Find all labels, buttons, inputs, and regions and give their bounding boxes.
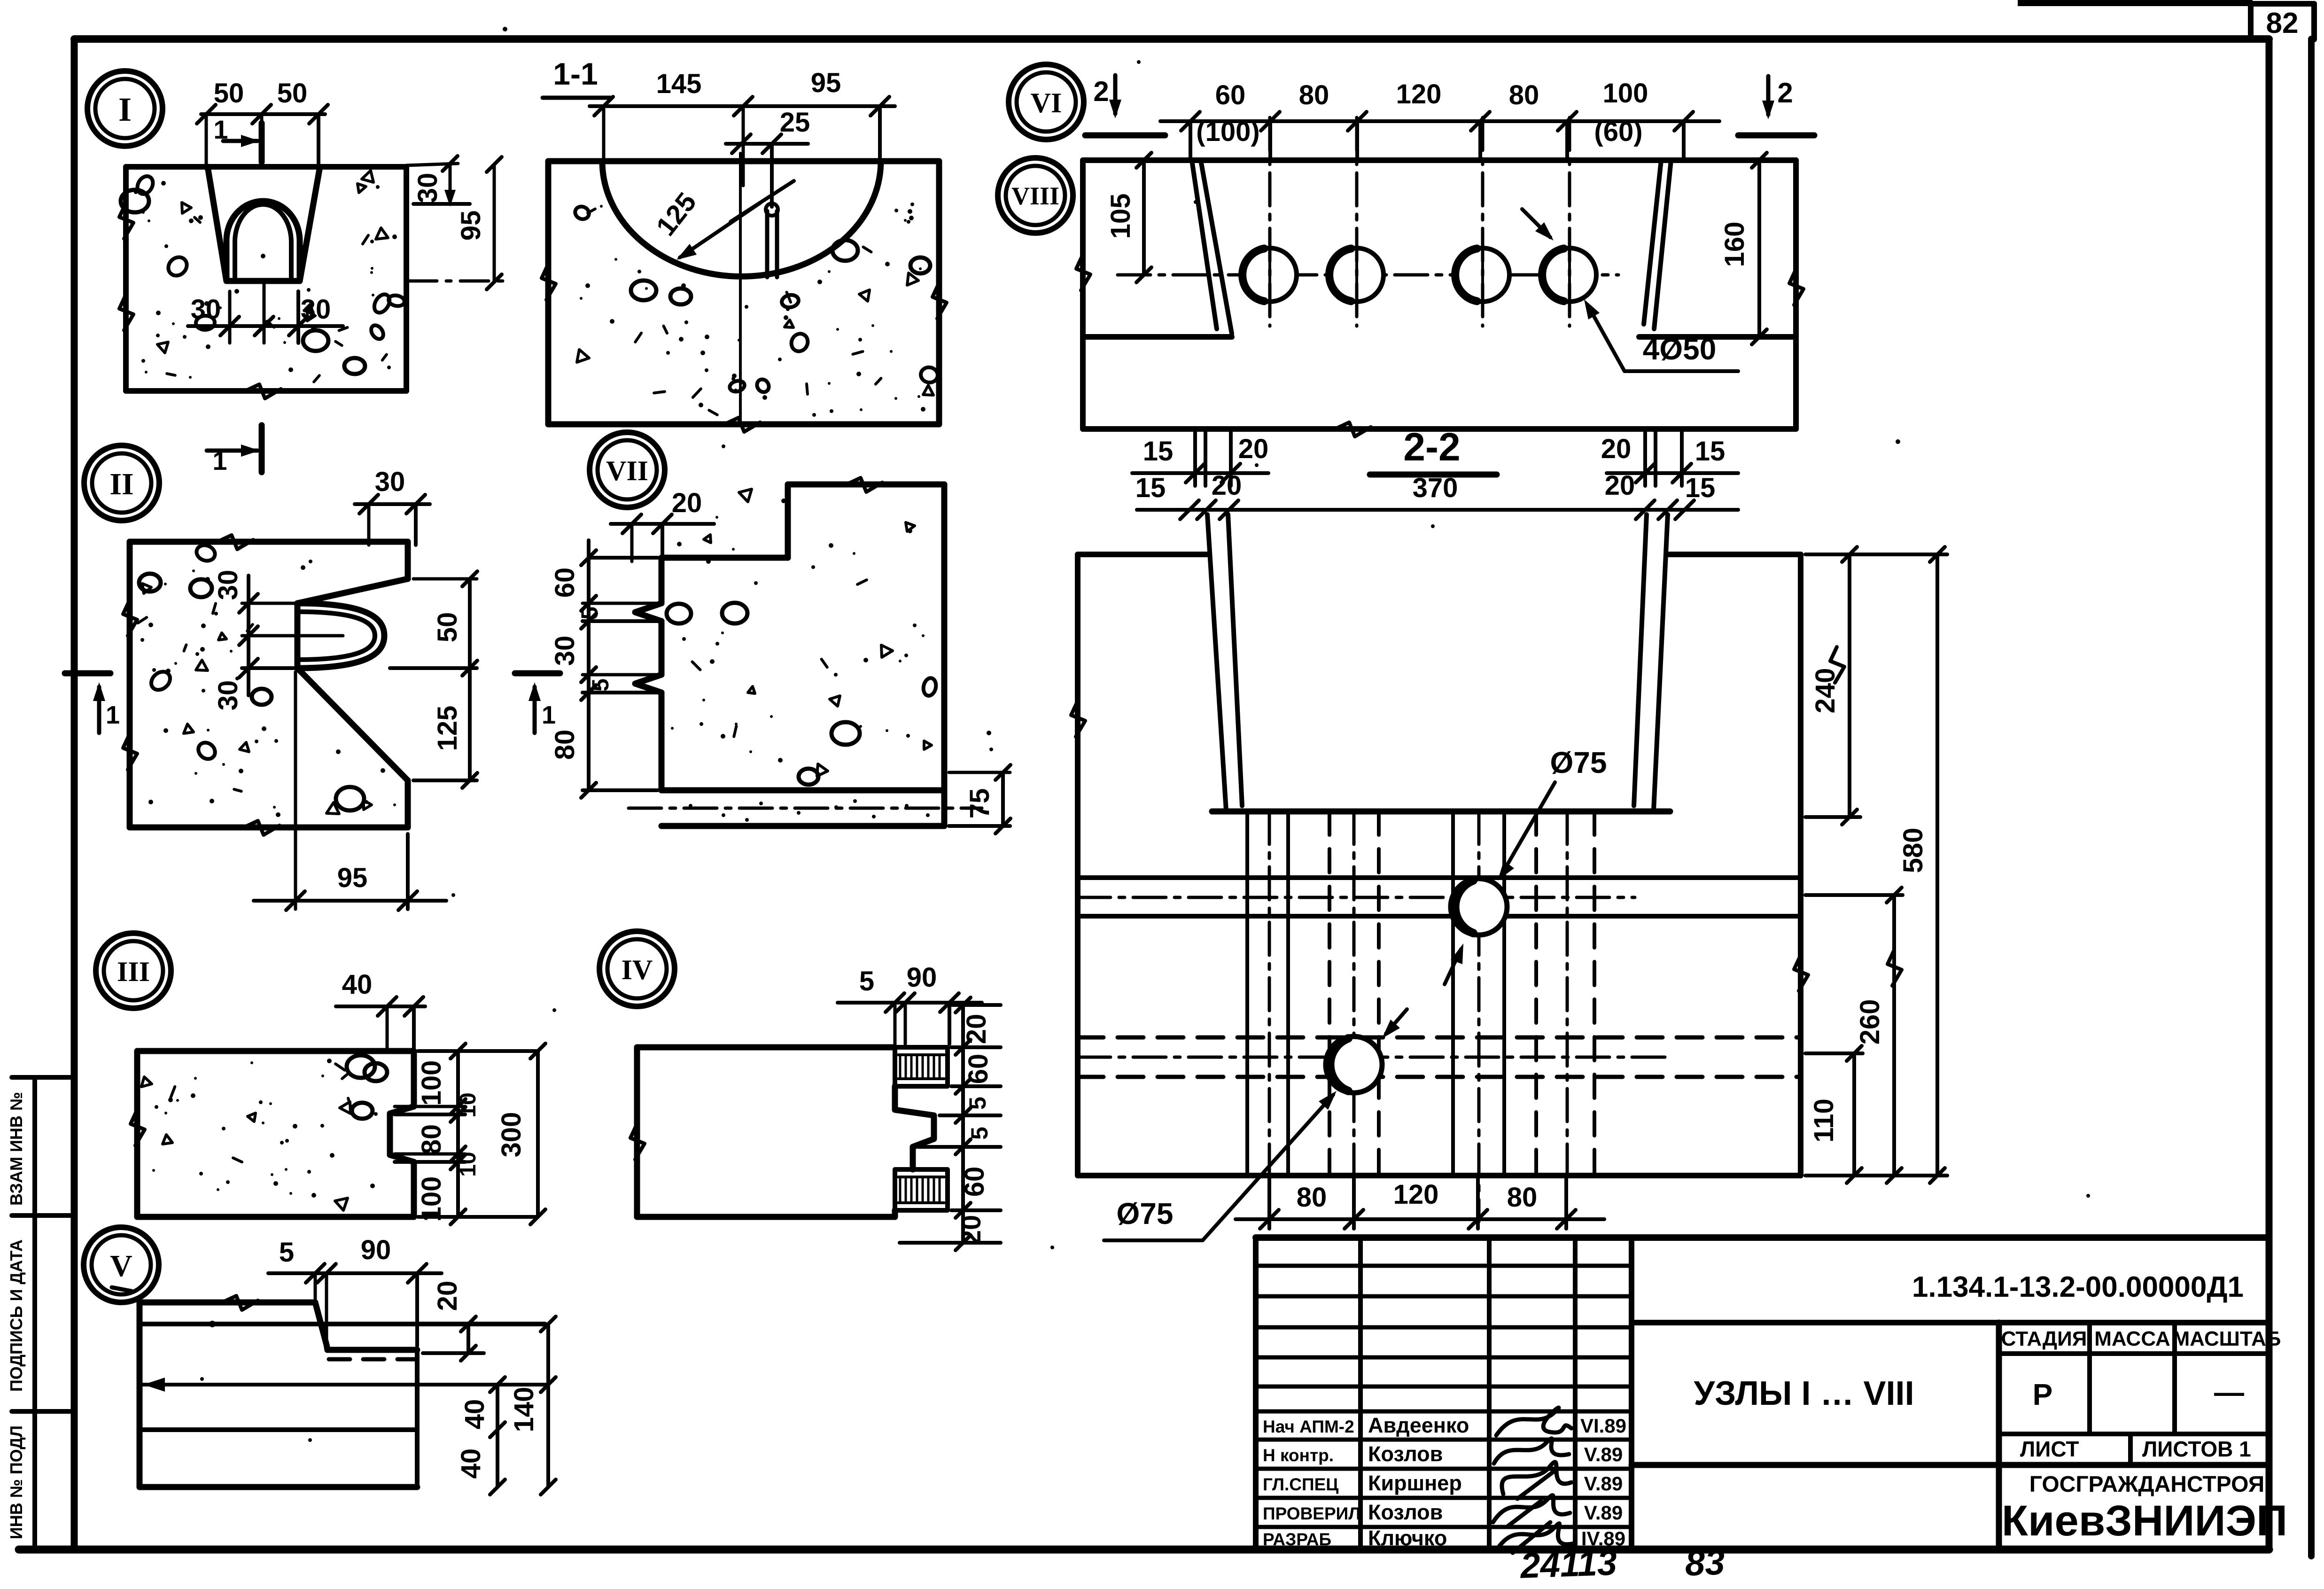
detail IV panel outline — [637, 1044, 895, 1051]
detail VII marker — [590, 432, 665, 507]
svg-text:20: 20 — [672, 488, 702, 518]
svg-text:5: 5 — [576, 607, 603, 620]
svg-text:V.89: V.89 — [1584, 1472, 1623, 1495]
section 1-1 radius 125 leader — [680, 181, 794, 257]
detail I section mark 1 bottom — [207, 449, 257, 453]
svg-text:145: 145 — [656, 69, 702, 99]
svg-text:ПОДПИСЬ И ДАТА: ПОДПИСЬ И ДАТА — [7, 1239, 26, 1392]
svg-text:75: 75 — [964, 788, 995, 819]
svg-text:Ключко: Ключко — [1368, 1526, 1447, 1550]
detail IV right edge profile — [895, 1086, 934, 1169]
svg-text:20: 20 — [1238, 434, 1269, 464]
section 1-1 anchor pin — [765, 211, 769, 277]
svg-text:30: 30 — [550, 636, 580, 666]
section 1-1 semicircular recess — [602, 161, 881, 276]
left stamp column — [32, 1077, 37, 1550]
svg-text:10: 10 — [456, 1152, 481, 1176]
detail VII L-block outline — [788, 482, 944, 488]
svg-text:—: — — [2214, 1375, 2244, 1409]
svg-text:1: 1 — [542, 701, 556, 729]
svg-text:15: 15 — [1695, 436, 1726, 467]
svg-text:ВЗАМ ИНВ №: ВЗАМ ИНВ № — [7, 1092, 26, 1206]
plan 2-2 upper left joint — [1192, 160, 1217, 329]
svg-text:370: 370 — [1413, 473, 1458, 503]
svg-text:IV: IV — [622, 954, 653, 985]
svg-text:V.89: V.89 — [1584, 1502, 1623, 1524]
detail II block outline — [130, 539, 408, 545]
svg-text:VII: VII — [606, 455, 648, 486]
svg-text:20: 20 — [432, 1281, 463, 1311]
detail VII lower band — [661, 823, 944, 829]
svg-text:30: 30 — [191, 294, 221, 325]
dim 260 — [1892, 895, 1896, 1176]
title block outer — [1256, 1234, 2269, 1241]
svg-text:120: 120 — [1396, 79, 1442, 109]
svg-text:20: 20 — [956, 1215, 987, 1246]
detail I dim 95 right — [493, 164, 496, 282]
svg-text:КиевЗНИИЭП: КиевЗНИИЭП — [2002, 1497, 2287, 1545]
svg-text:30: 30 — [213, 570, 243, 600]
detail III texture — [311, 1193, 316, 1198]
plan 2-2 upper outline — [1083, 157, 1796, 163]
svg-text:ЛИСТОВ 1: ЛИСТОВ 1 — [2142, 1437, 2251, 1461]
detail III dim 40 — [336, 1005, 425, 1008]
svg-text:4Ø50: 4Ø50 — [1643, 332, 1717, 366]
detail V dim 5+90 — [268, 1271, 442, 1275]
signatures squiggles — [1496, 1408, 1571, 1435]
detail I concrete block outline — [126, 164, 406, 170]
svg-text:20: 20 — [1212, 470, 1242, 501]
detail VII dim 75 — [1001, 772, 1005, 826]
detail I dim 50+50 — [201, 112, 325, 116]
plan 2-2 upper right joint — [1644, 160, 1661, 324]
detail I marker — [87, 71, 163, 146]
section 2-2 opening bottom — [1212, 809, 1670, 815]
detail III block outline — [137, 1048, 414, 1054]
detail II left dim chain 30/30 — [247, 576, 250, 695]
section 1-1 block outline — [548, 158, 939, 164]
svg-text:125: 125 — [432, 706, 463, 751]
page number box 82 — [2018, 0, 2253, 6]
svg-text:Киршнер: Киршнер — [1368, 1471, 1462, 1495]
svg-text:1.134.1-13.2-00.00000Д1: 1.134.1-13.2-00.00000Д1 — [1912, 1271, 2244, 1303]
svg-text:15: 15 — [1685, 473, 1716, 503]
svg-text:VIII: VIII — [1011, 182, 1059, 210]
svg-text:83: 83 — [1684, 1542, 1725, 1584]
svg-text:60: 60 — [959, 1167, 990, 1197]
svg-text:III: III — [117, 956, 150, 987]
detail I dim 30+30 bottom — [188, 324, 343, 328]
section 2-2 lower wall band (hidden) — [1078, 1036, 1801, 1040]
detail VI marker — [1009, 64, 1084, 140]
svg-text:СТАДИЯ: СТАДИЯ — [2001, 1327, 2087, 1350]
svg-text:30: 30 — [213, 680, 243, 711]
svg-text:30: 30 — [301, 294, 331, 325]
plan 2-2 upper top dims 60/80/120/80/100 — [1160, 119, 1719, 123]
detail V dim chain 40/40 — [496, 1385, 499, 1487]
detail II right edge and notch — [405, 542, 411, 579]
svg-text:240: 240 — [1810, 668, 1841, 714]
sheet frame border — [74, 35, 2269, 43]
dim 240 — [1848, 554, 1851, 817]
detail II dim 125 — [468, 668, 472, 780]
section 2-2 outline — [1078, 552, 1208, 557]
detail III notch — [390, 1106, 414, 1114]
svg-text:160: 160 — [1719, 222, 1750, 267]
svg-text:95: 95 — [337, 863, 368, 893]
svg-text:80: 80 — [550, 730, 580, 760]
svg-text:V.89: V.89 — [1584, 1443, 1623, 1465]
svg-text:15: 15 — [1143, 436, 1174, 467]
svg-text:90: 90 — [907, 962, 937, 993]
section 1-1 center line — [739, 153, 742, 422]
svg-text:1-1: 1-1 — [553, 56, 598, 91]
svg-text:ИНВ № ПОДЛ: ИНВ № ПОДЛ — [7, 1425, 26, 1539]
section 2-2 tapered walls — [1207, 514, 1226, 810]
svg-text:580: 580 — [1898, 828, 1928, 873]
svg-text:80: 80 — [416, 1124, 447, 1155]
svg-text:10: 10 — [456, 1092, 481, 1117]
svg-text:30: 30 — [412, 173, 443, 203]
svg-text:VI: VI — [1031, 87, 1062, 118]
svg-text:260: 260 — [1855, 999, 1885, 1045]
svg-text:100: 100 — [416, 1060, 447, 1106]
detail IV gasket 1 — [895, 1047, 948, 1086]
svg-text:105: 105 — [1105, 194, 1136, 239]
svg-text:40: 40 — [456, 1449, 486, 1479]
detail II dim 50 — [468, 579, 472, 668]
svg-text:5: 5 — [964, 1097, 991, 1110]
svg-text:100: 100 — [416, 1176, 447, 1222]
svg-text:110: 110 — [1809, 1098, 1839, 1143]
svg-text:60: 60 — [1215, 80, 1246, 110]
svg-text:1: 1 — [213, 115, 228, 144]
svg-text:40: 40 — [459, 1399, 490, 1430]
svg-text:80: 80 — [1507, 1182, 1538, 1213]
detail V marker — [84, 1227, 159, 1302]
detail II D-shaped recess — [297, 603, 384, 668]
svg-text:Ø75: Ø75 — [1550, 746, 1607, 779]
plan 2-2 upper dim 160 — [1757, 160, 1761, 337]
stadia massa masshtab — [1996, 1323, 2002, 1550]
svg-text:Авдеенко: Авдеенко — [1368, 1413, 1469, 1437]
section 2-2 vertical channels — [1245, 811, 1249, 1176]
detail II texture — [192, 569, 195, 572]
detail III marker — [96, 933, 171, 1008]
svg-text:5: 5 — [587, 678, 614, 692]
detail II section mark right — [515, 670, 560, 677]
svg-text:Н контр.: Н контр. — [1263, 1446, 1334, 1465]
scan specks — [503, 27, 507, 31]
svg-text:140: 140 — [509, 1387, 539, 1433]
plan 2-2 upper center line — [1118, 273, 1618, 277]
detail V dim 20 — [466, 1324, 470, 1353]
svg-text:V: V — [110, 1249, 132, 1283]
detail VIII marker — [998, 158, 1073, 233]
section 2-2 hole 1 — [1451, 879, 1507, 935]
signature table columns — [1358, 1238, 1363, 1550]
svg-text:(60): (60) — [1594, 117, 1642, 147]
detail I texture — [387, 366, 391, 369]
signature table rows — [1256, 1264, 1632, 1268]
detail II dim 30 top — [355, 502, 430, 506]
svg-text:300: 300 — [496, 1112, 527, 1158]
svg-text:ГОСГРАЖДАНСТРОЯ: ГОСГРАЖДАНСТРОЯ — [2029, 1472, 2265, 1497]
svg-text:80: 80 — [1297, 1182, 1327, 1213]
section 2-2 top dims 15/20/370/20/15 — [1137, 508, 1738, 512]
svg-text:50: 50 — [432, 612, 463, 643]
plan 2-2 upper bottom dims 15/20 20/15 — [1193, 429, 1197, 486]
svg-text:5: 5 — [859, 966, 874, 997]
detail VII texture — [924, 741, 932, 749]
svg-text:1: 1 — [212, 446, 227, 475]
svg-text:60: 60 — [550, 568, 580, 598]
svg-text:95: 95 — [811, 68, 841, 98]
svg-text:15: 15 — [1135, 473, 1166, 503]
svg-text:II: II — [109, 467, 133, 501]
svg-text:2: 2 — [1777, 77, 1793, 109]
svg-text:I: I — [118, 91, 132, 128]
svg-text:40: 40 — [342, 969, 373, 1000]
detail I trapezoid cutout — [208, 167, 226, 281]
detail II marker — [84, 445, 159, 521]
svg-text:2: 2 — [1093, 76, 1109, 107]
detail I dim 30 right top — [406, 164, 458, 165]
svg-text:5: 5 — [279, 1237, 294, 1268]
svg-text:20: 20 — [1605, 470, 1635, 501]
section 2-2 right dims — [1805, 553, 1947, 556]
svg-text:VI.89: VI.89 — [1580, 1415, 1626, 1437]
svg-text:80: 80 — [1299, 80, 1329, 110]
svg-text:Ø75: Ø75 — [1117, 1197, 1174, 1231]
detail V dim 140 — [546, 1324, 550, 1487]
section 2-2 hole 2 — [1326, 1036, 1382, 1093]
svg-text:1: 1 — [106, 701, 120, 729]
svg-text:60: 60 — [963, 1054, 994, 1084]
section 1-1 dim 145+95 — [590, 104, 895, 108]
svg-text:20: 20 — [1601, 434, 1632, 464]
detail II dim 95 bottom — [254, 899, 446, 903]
svg-text:24113: 24113 — [1519, 1542, 1618, 1586]
detail III dim 300 — [536, 1051, 540, 1217]
svg-text:Р: Р — [2033, 1378, 2053, 1411]
svg-text:УЗЛЫ I … VIII: УЗЛЫ I … VIII — [1694, 1375, 1914, 1412]
svg-text:100: 100 — [1603, 78, 1648, 109]
detail I arch insert — [226, 201, 300, 281]
svg-text:5: 5 — [966, 1127, 993, 1140]
svg-text:120: 120 — [1393, 1179, 1439, 1210]
svg-text:2-2: 2-2 — [1403, 425, 1460, 469]
detail IV right chain 20/60/5/5/60/20 — [961, 1005, 965, 1243]
detail III right chain 100/10/80/10/100 — [456, 1051, 460, 1217]
svg-text:ГЛ.СПЕЦ: ГЛ.СПЕЦ — [1263, 1475, 1338, 1494]
svg-text:50: 50 — [277, 78, 308, 109]
svg-text:ПРОВЕРИЛ: ПРОВЕРИЛ — [1263, 1504, 1360, 1523]
plan 2-2 upper holes 4x — [1243, 248, 1297, 302]
detail IV marker — [599, 931, 675, 1006]
detail IV dim 5+90 top — [838, 1001, 982, 1005]
section 2-2 upper wall band — [1078, 875, 1801, 880]
svg-text:82: 82 — [2266, 7, 2299, 39]
detail VII dim 20 — [611, 522, 714, 526]
dim 580 — [1935, 554, 1939, 1176]
svg-text:(100): (100) — [1196, 117, 1259, 147]
detail VII left dim chain 60/5/30/5/80 — [587, 540, 591, 790]
svg-text:50: 50 — [214, 78, 244, 109]
list row — [2128, 1434, 2133, 1465]
detail V arrow 140 line — [140, 1383, 548, 1386]
detail V slab profile — [140, 1300, 315, 1306]
svg-text:90: 90 — [361, 1235, 391, 1265]
svg-text:25: 25 — [780, 107, 810, 138]
detail I section mark 1 top — [223, 139, 257, 143]
svg-text:95: 95 — [456, 210, 486, 241]
svg-text:Нач АПМ-2: Нач АПМ-2 — [1263, 1417, 1354, 1436]
detail II section mark left — [65, 670, 110, 677]
svg-text:20: 20 — [961, 1014, 992, 1044]
svg-text:ЛИСТ: ЛИСТ — [2020, 1437, 2079, 1461]
section 2-2 bottom dims 80/120/80 — [1267, 1176, 1271, 1229]
section 1-1 dim 25 — [726, 142, 808, 146]
svg-text:30: 30 — [375, 467, 405, 497]
section 1-1 texture — [610, 319, 614, 324]
svg-text:МАССА: МАССА — [2094, 1327, 2170, 1350]
detail IV gasket 2 — [895, 1169, 948, 1210]
svg-text:Козлов: Козлов — [1368, 1442, 1443, 1466]
svg-text:80: 80 — [1509, 80, 1539, 110]
svg-text:РАЗРАБ: РАЗРАБ — [1263, 1530, 1331, 1549]
svg-text:Козлов: Козлов — [1368, 1500, 1443, 1524]
plan 2-2 upper dim 105 — [1142, 160, 1146, 275]
dim 110 — [1852, 1053, 1856, 1176]
svg-text:МАСШТАБ: МАСШТАБ — [2173, 1327, 2281, 1350]
